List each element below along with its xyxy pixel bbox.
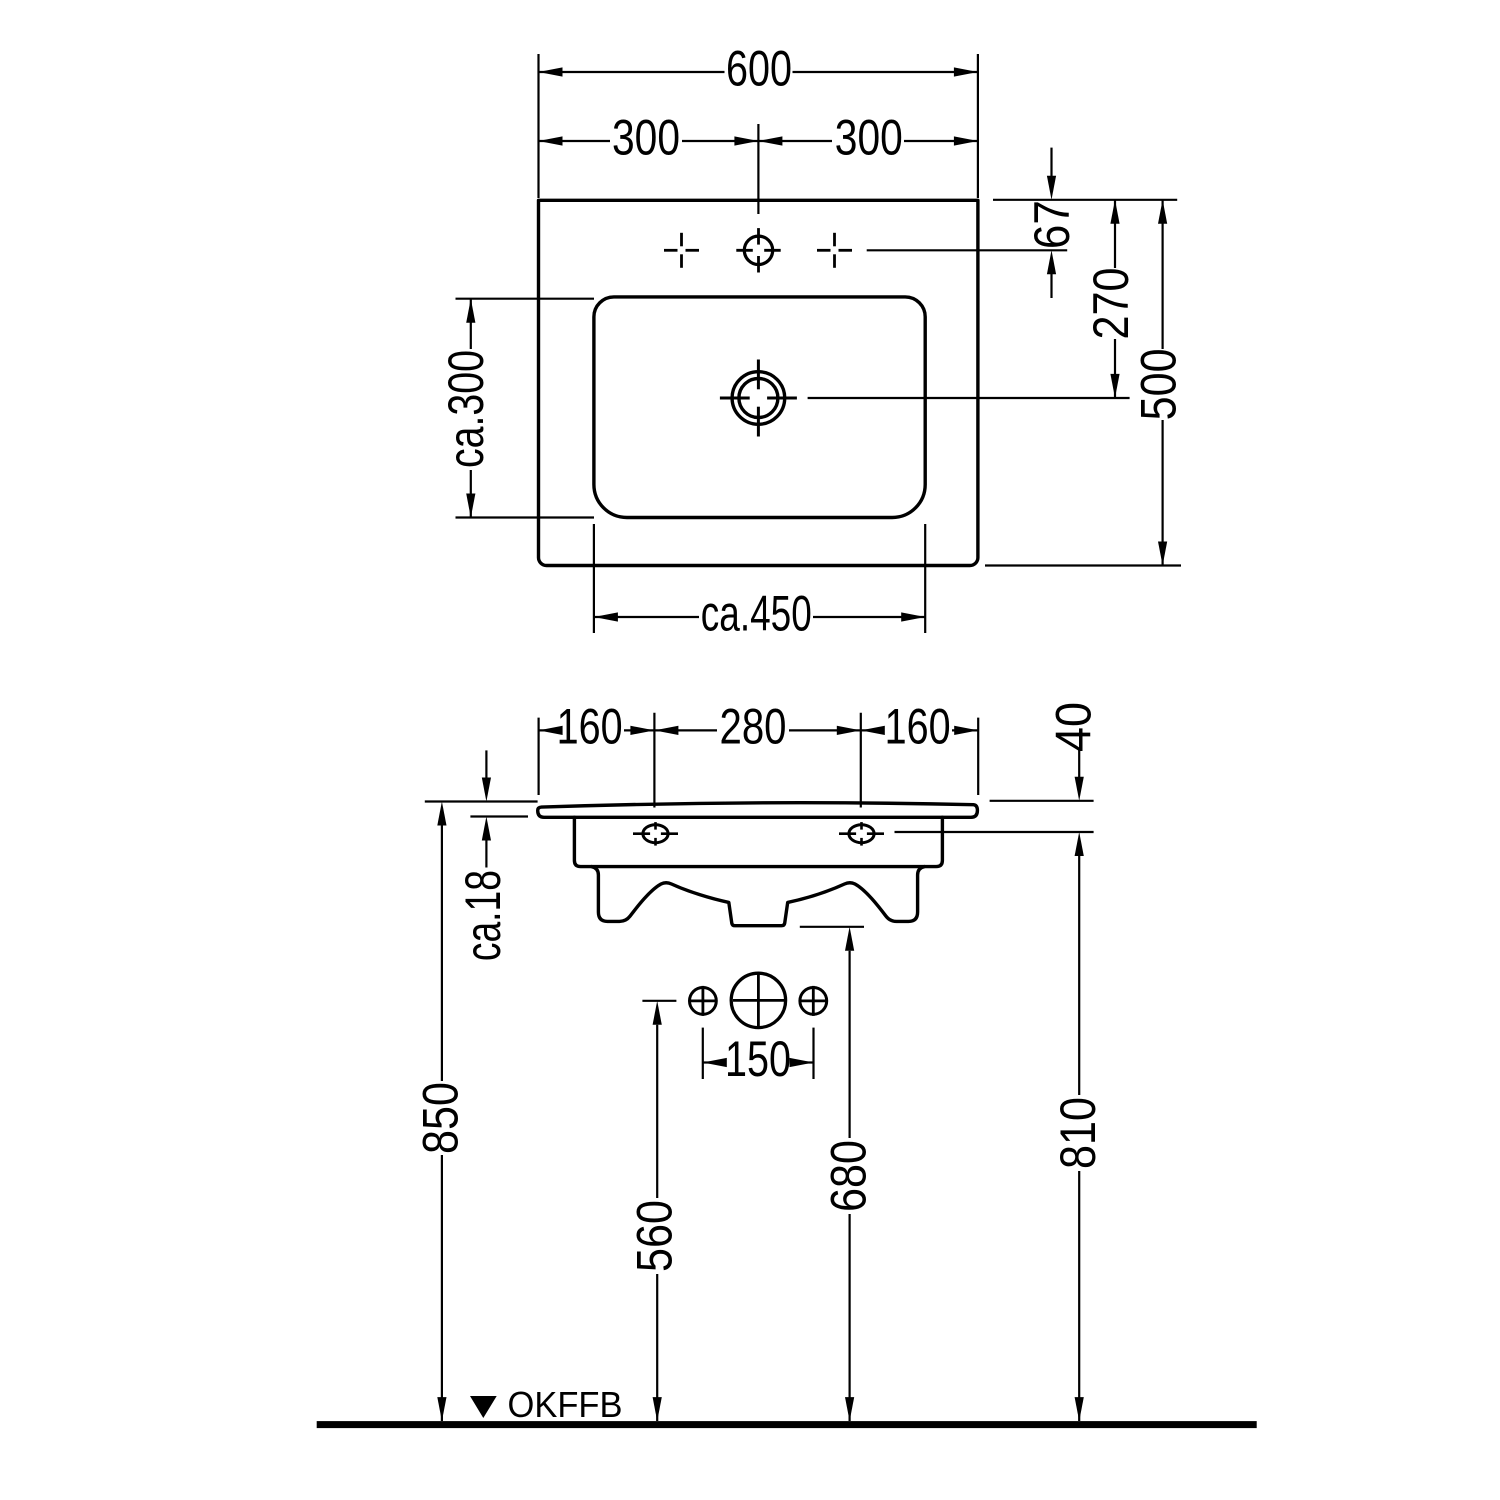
svg-text:280: 280 bbox=[720, 699, 787, 755]
svg-text:150: 150 bbox=[725, 1031, 791, 1087]
svg-text:300: 300 bbox=[835, 110, 903, 166]
svg-text:500: 500 bbox=[1131, 348, 1187, 420]
svg-text:680: 680 bbox=[821, 1140, 877, 1212]
svg-text:810: 810 bbox=[1050, 1097, 1106, 1169]
svg-text:ca.18: ca.18 bbox=[455, 870, 511, 961]
svg-text:OKFFB: OKFFB bbox=[508, 1384, 623, 1425]
svg-text:ca.450: ca.450 bbox=[701, 586, 812, 642]
svg-text:40: 40 bbox=[1046, 702, 1102, 752]
svg-text:600: 600 bbox=[726, 41, 792, 97]
svg-text:300: 300 bbox=[612, 110, 680, 166]
svg-text:67: 67 bbox=[1024, 200, 1080, 249]
svg-text:160: 160 bbox=[885, 699, 951, 755]
svg-text:270: 270 bbox=[1083, 268, 1139, 340]
svg-text:160: 160 bbox=[557, 699, 623, 755]
svg-text:560: 560 bbox=[627, 1200, 683, 1272]
svg-text:850: 850 bbox=[413, 1082, 469, 1154]
svg-text:ca.300: ca.300 bbox=[438, 350, 494, 468]
